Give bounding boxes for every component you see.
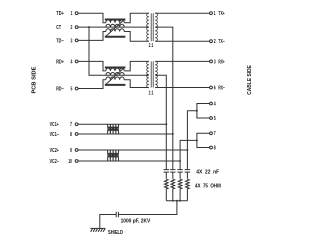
svg-text:1:1: 1:1 <box>149 91 154 97</box>
svg-text:PCB SIDE: PCB SIDE <box>31 66 37 93</box>
svg-text:1:1: 1:1 <box>149 43 154 49</box>
svg-text:RX+: RX+ <box>218 59 224 65</box>
svg-text:9: 9 <box>70 148 72 154</box>
svg-text:4: 4 <box>71 59 73 65</box>
svg-text:5: 5 <box>71 86 73 92</box>
svg-text:VC1+: VC1+ <box>50 122 59 128</box>
svg-text:SHIELD: SHIELD <box>108 230 123 236</box>
svg-text:3: 3 <box>71 38 73 44</box>
svg-text:RX−: RX− <box>218 86 224 92</box>
svg-text:VC2+: VC2+ <box>50 148 59 154</box>
svg-text:6: 6 <box>214 86 216 92</box>
svg-text:TX−: TX− <box>218 39 224 45</box>
svg-text:TD−: TD− <box>56 38 63 44</box>
svg-text:10: 10 <box>68 159 72 165</box>
svg-text:7: 7 <box>214 131 216 137</box>
svg-text:RD+: RD+ <box>56 59 64 65</box>
svg-text:7: 7 <box>70 122 72 128</box>
svg-text:1000 pF, 2KV: 1000 pF, 2KV <box>121 218 151 224</box>
svg-text:2: 2 <box>214 39 216 45</box>
svg-text:1: 1 <box>71 11 73 17</box>
svg-text:TX+: TX+ <box>218 11 224 17</box>
svg-text:3: 3 <box>214 59 216 65</box>
svg-text:VC2−: VC2− <box>50 159 59 165</box>
svg-text:CT: CT <box>56 25 61 31</box>
svg-text:1: 1 <box>214 11 216 17</box>
svg-text:CABLE SIDE: CABLE SIDE <box>247 65 253 95</box>
svg-text:4: 4 <box>214 101 216 107</box>
svg-text:RD−: RD− <box>56 86 63 92</box>
svg-text:VC1−: VC1− <box>50 132 59 138</box>
svg-text:8: 8 <box>70 132 72 138</box>
svg-text:4X 22 nF: 4X 22 nF <box>196 170 219 176</box>
svg-text:TD+: TD+ <box>56 11 64 17</box>
svg-text:5: 5 <box>214 116 216 122</box>
svg-text:2: 2 <box>71 25 73 31</box>
svg-text:4X 75 OHM: 4X 75 OHM <box>195 184 221 190</box>
svg-text:8: 8 <box>214 145 216 151</box>
